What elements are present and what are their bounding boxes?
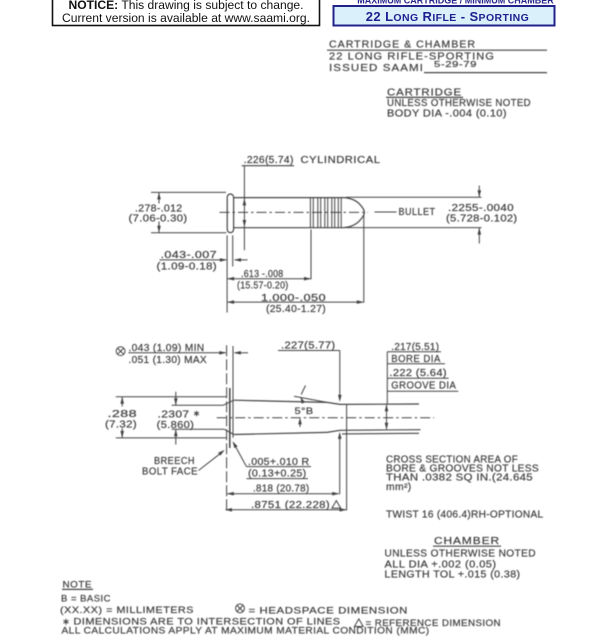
svg-text:.226(5.74): .226(5.74) — [244, 155, 294, 166]
svg-text:.818 (20.78): .818 (20.78) — [253, 484, 310, 495]
svg-text:CARTRIDGE & CHAMBER: CARTRIDGE & CHAMBER — [329, 39, 476, 51]
svg-text:.2255-.0040: .2255-.0040 — [448, 203, 514, 214]
svg-text:(1.09-0.18): (1.09-0.18) — [157, 261, 218, 272]
svg-text:.288: .288 — [108, 409, 138, 420]
svg-text:CHAMBER: CHAMBER — [434, 536, 500, 547]
svg-text:LENGTH TOL +.015 (0.38): LENGTH TOL +.015 (0.38) — [385, 570, 521, 581]
svg-text:ISSUED SAAMI: ISSUED SAAMI — [329, 62, 424, 74]
svg-text:ALL CALCULATIONS APPLY AT MAXI: ALL CALCULATIONS APPLY AT MAXIMUM MATERI… — [62, 626, 430, 637]
svg-text:(15.57-0.20): (15.57-0.20) — [237, 280, 289, 291]
svg-text:(5.728-0.102): (5.728-0.102) — [446, 213, 518, 224]
svg-text:5°B: 5°B — [295, 406, 314, 417]
svg-text:TWIST 16 (406.4)RH-OPTIONAL: TWIST 16 (406.4)RH-OPTIONAL — [386, 510, 544, 521]
svg-text:(0.13+0.25): (0.13+0.25) — [248, 468, 307, 479]
svg-text:.051 (1.30) MAX: .051 (1.30) MAX — [129, 355, 208, 366]
svg-text:(7.06-0.30): (7.06-0.30) — [129, 213, 188, 224]
svg-text:.613 -.008: .613 -.008 — [241, 269, 284, 280]
svg-text:B = BASIC: B = BASIC — [61, 594, 111, 605]
svg-text:.217(5.51): .217(5.51) — [391, 342, 439, 353]
svg-text:1.000-.050: 1.000-.050 — [261, 293, 326, 304]
svg-text:UNLESS OTHERWISE NOTED: UNLESS OTHERWISE NOTED — [385, 549, 537, 560]
svg-text:BREECH: BREECH — [154, 456, 195, 467]
svg-text:.8751 (22.228): .8751 (22.228) — [251, 500, 330, 511]
svg-text:BOLT FACE: BOLT FACE — [142, 466, 198, 477]
svg-text:22 LONG RIFLE - SPORTING: 22 LONG RIFLE - SPORTING — [366, 9, 529, 24]
svg-text:BULLET: BULLET — [399, 207, 436, 218]
svg-text:mm²): mm²) — [386, 482, 412, 493]
svg-text:Current version is available a: Current version is available at www.saam… — [62, 11, 310, 25]
svg-text:BODY DIA -.004 (0.10): BODY DIA -.004 (0.10) — [387, 108, 507, 119]
svg-text:CYLINDRICAL: CYLINDRICAL — [301, 155, 381, 166]
svg-text:= HEADSPACE DIMENSION: = HEADSPACE DIMENSION — [249, 605, 409, 616]
svg-text:GROOVE DIA: GROOVE DIA — [391, 381, 456, 392]
svg-text:(XX.XX) = MILLIMETERS: (XX.XX) = MILLIMETERS — [60, 605, 194, 616]
svg-text:5-29-79: 5-29-79 — [434, 59, 477, 69]
svg-text:.2307: .2307 — [158, 409, 190, 420]
svg-text:.043 (1.09) MIN: .043 (1.09) MIN — [129, 343, 205, 354]
svg-text:(25.40-1.27): (25.40-1.27) — [266, 304, 326, 315]
svg-text:(5.860): (5.860) — [157, 420, 195, 431]
svg-text:(7.32): (7.32) — [105, 420, 137, 431]
svg-text:.222 (5.64): .222 (5.64) — [389, 368, 447, 379]
svg-text:MAXIMUM CARTRIDGE / MINIMUM CH: MAXIMUM CARTRIDGE / MINIMUM CHAMBER — [357, 0, 554, 6]
